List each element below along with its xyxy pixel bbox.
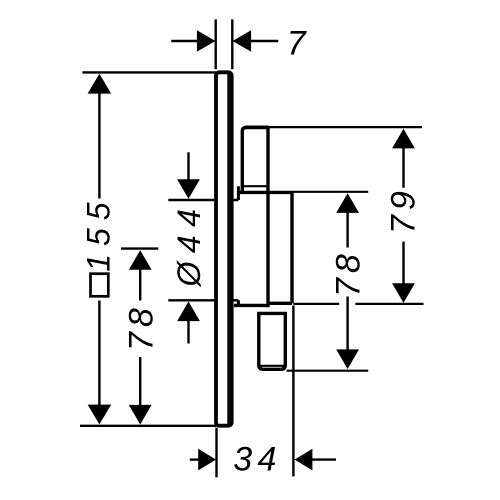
body bottom right segment	[268, 302, 292, 305]
top knob top extension line to right	[269, 126, 422, 128]
body top extension line to right	[292, 191, 368, 193]
dim 78 left: dimension line segments	[139, 268, 141, 406]
bottom knob inner skirt line	[260, 365, 285, 367]
dim 34: left arrow shaft	[190, 458, 200, 460]
dim 155: bottom extension line	[80, 425, 216, 427]
wall plate outer profile	[216, 72, 232, 425]
svg-text:7: 7	[287, 25, 307, 63]
dim 34: left arrowhead	[198, 449, 216, 471]
dim 79: dimension line segments	[402, 147, 404, 285]
dim Ø44: bottom arrowhead	[177, 302, 200, 322]
neck top edge (Ø44)	[168, 199, 238, 201]
dim 78 left: center tick	[121, 247, 158, 249]
dim 7: left extension line	[214, 19, 216, 69]
svg-text:78: 78	[329, 249, 367, 297]
top knob right edge / body divider	[266, 127, 269, 307]
top knob left edge (rounded top corner)	[242, 127, 246, 192]
dim 155: bottom arrowhead	[88, 405, 112, 425]
dim Ø44: bottom arrow stem	[187, 321, 189, 344]
svg-text:78: 78	[122, 303, 160, 351]
bottom knob bottom extension line to right	[287, 370, 369, 372]
body right edge	[290, 192, 293, 303]
body annular face / flange edge verticals	[237, 186, 240, 305]
dim 7: right extension line	[231, 19, 233, 69]
dim 7: left arrowhead	[197, 30, 216, 52]
dim 79: bottom arrowhead	[392, 283, 415, 303]
dim 155: dimension line segments	[98, 92, 100, 406]
dim 79: top arrowhead	[392, 129, 415, 149]
dim 155: top arrowhead	[88, 74, 112, 94]
dim 7: right arrowhead	[233, 30, 252, 52]
dim 78 left: bottom arrowhead	[129, 405, 152, 425]
top knob top edge	[245, 126, 269, 130]
body bottom left segment	[234, 304, 268, 307]
body top edge	[238, 191, 292, 194]
dim 34: left extension line	[215, 428, 217, 478]
bottom knob outline	[259, 313, 286, 369]
wall plate inner face line	[227, 74, 230, 425]
dim 7: right arrow shaft	[251, 40, 279, 42]
dim 78 right: top arrowhead	[336, 193, 359, 213]
body bottom extension line to right (with gap at 78 dim)	[293, 303, 423, 305]
dim 34: right arrowhead	[295, 449, 313, 471]
svg-text:79: 79	[384, 186, 422, 234]
dim 7: left arrow shaft	[171, 40, 198, 42]
dim 155: top extension line	[82, 71, 216, 73]
top knob inner skirt line	[242, 185, 268, 187]
svg-text:34: 34	[233, 441, 281, 479]
dim 34: right arrow shaft	[311, 458, 336, 460]
dim 78 left: top arrowhead	[129, 250, 152, 270]
dim Ø44: top arrowhead	[177, 179, 200, 199]
dim 34: right extension line	[292, 306, 294, 477]
dim 78 right: dimension line segments	[346, 212, 348, 351]
label square symbol of square-155	[91, 274, 109, 297]
svg-text:Ø44: Ø44	[171, 201, 207, 288]
dim Ø44: top arrow stem	[187, 152, 189, 180]
svg-text:155: 155	[81, 194, 117, 271]
neck bottom edge (Ø44)	[168, 299, 238, 301]
dim 78 right: bottom arrowhead	[336, 349, 359, 369]
